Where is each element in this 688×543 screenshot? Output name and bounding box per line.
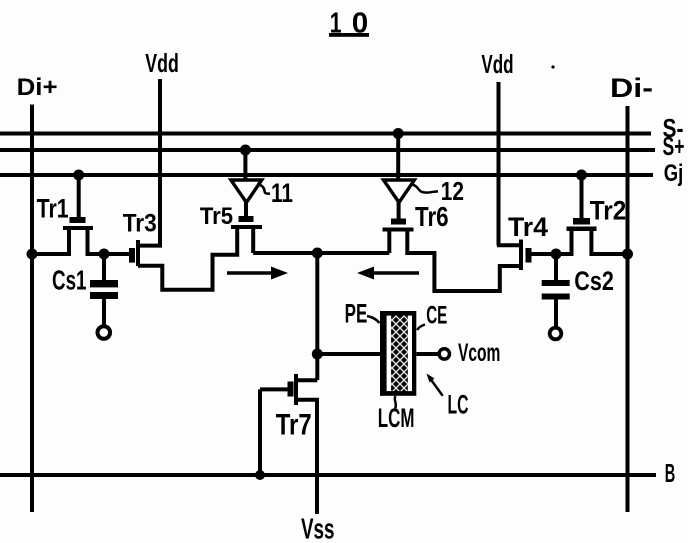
svg-text:Cs1: Cs1 [52,265,87,296]
svg-text:Vss: Vss [301,514,335,543]
svg-text:11: 11 [271,178,293,208]
svg-text:Di-: Di- [610,73,653,103]
svg-text:LCM: LCM [378,403,415,433]
svg-text:PE: PE [345,299,368,329]
svg-text:Cs2: Cs2 [574,266,614,296]
svg-text:Tr2: Tr2 [590,196,627,226]
svg-text:Vdd: Vdd [481,49,513,79]
svg-text:Tr6: Tr6 [415,201,449,232]
svg-text:Tr4: Tr4 [508,212,548,242]
svg-text:Tr3: Tr3 [123,210,157,238]
svg-text:Tr5: Tr5 [200,203,233,230]
svg-text:LC: LC [448,390,469,420]
svg-text:Vcom: Vcom [458,339,500,367]
svg-text:Gj: Gj [664,160,684,187]
svg-text:B: B [665,458,676,488]
svg-text:Vdd: Vdd [145,48,179,78]
svg-text:Tr7: Tr7 [276,409,312,442]
svg-text:S+: S+ [663,131,685,161]
svg-text:Tr1: Tr1 [37,194,69,224]
svg-text:Di+: Di+ [17,74,58,101]
svg-text:CE: CE [426,302,447,330]
